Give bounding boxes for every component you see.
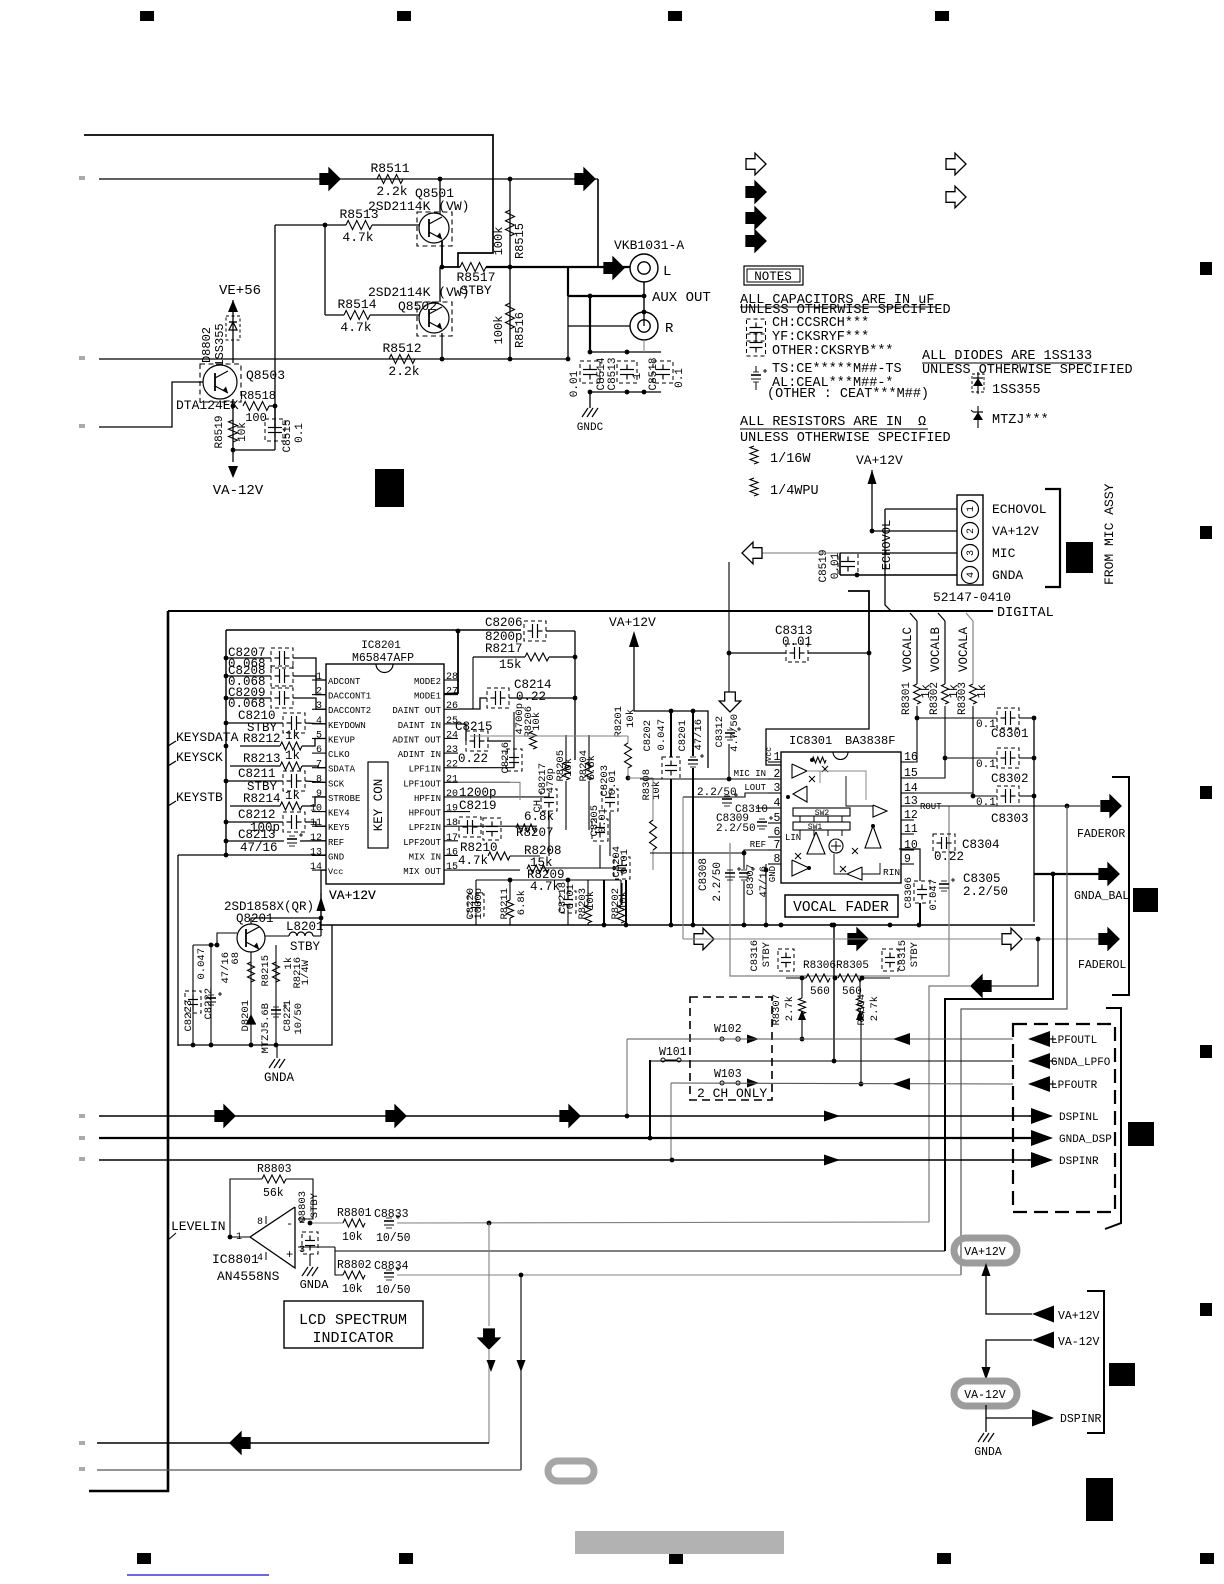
svg-text:KEYDOWN: KEYDOWN (328, 721, 366, 731)
capacitor C8212 (291, 815, 293, 829)
svg-text:DSPINR: DSPINR (1060, 1413, 1102, 1426)
svg-text:1: 1 (236, 1232, 242, 1243)
svg-text:12: 12 (310, 833, 322, 844)
arrowhead up r8307 (798, 1010, 806, 1020)
wire pin8 col (765, 864, 767, 925)
pin 6 stub (312, 752, 326, 754)
svg-text:STBY: STBY (290, 940, 321, 954)
pin 15 stub (444, 869, 458, 871)
svg-text:STBY: STBY (460, 283, 491, 298)
wire pin18 net (458, 825, 537, 827)
resistor R8307 (799, 998, 806, 1014)
wire r8201 col (627, 736, 629, 743)
svg-text:C8206: C8206 (485, 616, 523, 630)
wire r8204 col (588, 735, 590, 771)
internal dot (810, 758, 814, 762)
junction (508, 177, 513, 182)
diode 1SS355 symbol (977, 372, 979, 394)
svg-text:4: 4 (316, 716, 322, 727)
capacitor C8202 (665, 765, 677, 767)
wire c8834 out (397, 1274, 961, 1276)
svg-text:KEY4: KEY4 (328, 809, 350, 819)
wire R8214 right (302, 797, 326, 806)
wire vocala net (901, 706, 973, 793)
wire to left arrow (762, 552, 840, 554)
svg-text:R8302: R8302 (929, 682, 941, 715)
svg-text:0.22: 0.22 (516, 690, 546, 704)
capacitor C8833 sym (384, 1220, 394, 1222)
svg-text:MTZJ5.6B: MTZJ5.6B (260, 1003, 272, 1053)
pin 9 stub (312, 796, 326, 798)
wire DSPINR (99, 1159, 1031, 1161)
svg-text:REF: REF (328, 838, 344, 848)
wire levelin (229, 1236, 250, 1238)
wire r8304 down (859, 978, 861, 998)
wire pin16 mixin (458, 854, 488, 857)
junction (231, 448, 236, 453)
wire r8307 col (801, 1014, 803, 1039)
svg-text:10: 10 (310, 804, 322, 815)
pin 2 stub (312, 694, 326, 696)
junction (642, 390, 647, 395)
electrolytic symbol (751, 374, 761, 376)
wire pin3 stub (298, 1246, 335, 1248)
U8301 pin 16 stub (901, 761, 914, 763)
footer link underline (127, 1574, 269, 1576)
internal resistor (812, 757, 826, 763)
svg-text:R8513: R8513 (339, 207, 378, 222)
svg-text:ADINT IN: ADINT IN (398, 750, 441, 760)
hollow arrow left (742, 542, 762, 564)
exit arrow DSPINR (1031, 1152, 1053, 1168)
svg-text:26: 26 (446, 701, 458, 712)
svg-text:LCD SPECTRUM: LCD SPECTRUM (299, 1312, 407, 1329)
registration mark right (1200, 526, 1212, 539)
junction (209, 1043, 214, 1048)
svg-text:C8301: C8301 (991, 727, 1029, 741)
wire echovol vert (885, 509, 891, 611)
wire C8213 left (226, 840, 284, 842)
page edge tick (79, 1157, 85, 1161)
wire bus 905 (476, 919, 604, 921)
wire va-12v (986, 1340, 1032, 1372)
wire vert 575 (574, 631, 576, 760)
svg-text:FADEROR: FADEROR (1077, 828, 1125, 841)
internal wire (807, 771, 820, 783)
junction (867, 651, 872, 656)
pin 19 stub (444, 811, 458, 813)
wire c8833 out (397, 1222, 929, 1223)
resistor R8210 (488, 852, 510, 860)
va+12v left tri (1032, 1306, 1054, 1323)
wire c8222 col (210, 945, 212, 1045)
ground GNDA opamp (302, 1267, 308, 1276)
svg-text:Vcc: Vcc (328, 867, 343, 877)
registration mark right (1200, 1045, 1212, 1058)
wire input R (99, 358, 568, 360)
U8301 pin 15 stub (901, 777, 914, 779)
svg-text:VOCALB: VOCALB (929, 627, 943, 673)
wire jack R bottom (643, 340, 645, 352)
op-amp tri6 (792, 860, 809, 876)
svg-text:VA+12V: VA+12V (1058, 1310, 1100, 1323)
svg-text:R8215: R8215 (260, 955, 272, 987)
wire GND pin13 (178, 854, 326, 856)
svg-text:14: 14 (310, 862, 322, 873)
op-amp tri1 (792, 764, 807, 778)
wire gnda_lpfo (650, 1060, 1013, 1062)
svg-text:ADINT OUT: ADINT OUT (392, 735, 441, 745)
wire c8306 col2 (919, 903, 921, 925)
hollow down arrow (719, 692, 741, 712)
svg-text:NOTES: NOTES (754, 270, 792, 284)
sw ticks2 (799, 830, 801, 836)
U8301 pin 2 stub (768, 778, 781, 780)
underline (740, 306, 936, 308)
junction (870, 529, 875, 534)
resistor 1/16W symbol (750, 446, 758, 464)
svg-text:W101: W101 (659, 1046, 687, 1059)
svg-text:0.22: 0.22 (934, 850, 964, 864)
ground GNDA exit (978, 1433, 984, 1442)
svg-text:1/4W: 1/4W (300, 959, 312, 985)
pin 11 stub (312, 825, 326, 827)
wire rout (914, 805, 1100, 807)
flow arrowhead dspinr (824, 1155, 840, 1166)
resistor R8201 (625, 743, 632, 768)
wire to GNDC (589, 392, 591, 408)
gray pill (548, 1461, 594, 1481)
wire DSPINL (99, 1115, 1031, 1117)
pin 16 stub (444, 854, 458, 856)
svg-text:LPFOUTR: LPFOUTR (1051, 1080, 1098, 1092)
wire c8218 col2 (567, 910, 569, 925)
junction (456, 629, 461, 634)
wire VA+12V rail (634, 647, 708, 768)
svg-text:21: 21 (446, 774, 458, 785)
capacitor C8223 (188, 999, 198, 1001)
capacitor C8315 (885, 957, 895, 959)
junction (588, 350, 593, 355)
pin 20 stub (444, 796, 458, 798)
wire va drop (320, 893, 322, 936)
svg-text:HPFOUT: HPFOUT (409, 809, 442, 819)
registration mark top (397, 11, 411, 21)
svg-text:GNDA_DSP: GNDA_DSP (1059, 1134, 1112, 1146)
svg-text:MIX IN: MIX IN (409, 852, 441, 862)
wire drop 672 (670, 1083, 672, 1161)
svg-text:1k: 1k (285, 749, 300, 763)
off-page arrow (575, 168, 595, 190)
svg-text:6: 6 (774, 826, 781, 839)
svg-text:KEYSCK: KEYSCK (176, 750, 223, 765)
svg-text:17: 17 (446, 833, 458, 844)
svg-text:3: 3 (316, 701, 322, 712)
power arrow VA+12V (868, 470, 877, 484)
resistor R8516 (506, 303, 515, 329)
svg-text:MODE2: MODE2 (414, 677, 441, 687)
internal wire (862, 863, 880, 874)
svg-text:KEYSTB: KEYSTB (176, 790, 223, 805)
wire Q8501 collector (439, 179, 441, 214)
wire C8207 left (226, 657, 271, 659)
zone marker square (va-12v) (1109, 1363, 1135, 1386)
page edge tick (79, 176, 85, 180)
jumper W103 (720, 1081, 724, 1085)
page edge tick (79, 1441, 85, 1445)
x mark (852, 848, 858, 854)
gray footer bar (575, 1531, 784, 1554)
capacitor C8303 (1005, 789, 1007, 803)
svg-text:STBY: STBY (309, 1192, 321, 1218)
svg-text:DAINT IN: DAINT IN (398, 721, 441, 731)
junction (1032, 756, 1037, 761)
pin4 bar (265, 1252, 267, 1260)
junction (519, 1273, 524, 1278)
svg-text:HPFIN: HPFIN (414, 794, 441, 804)
wire Q8201 base (193, 933, 237, 945)
svg-text:AN4558NS: AN4558NS (217, 1269, 280, 1284)
svg-text:22: 22 (446, 760, 458, 771)
svg-text:Ω: Ω (918, 415, 926, 430)
wire drop 650 (649, 1060, 651, 1138)
pin8 bar (265, 1216, 267, 1224)
capacitor C8513 (620, 369, 634, 371)
wire C8215 right (487, 740, 511, 742)
junction (602, 923, 607, 928)
svg-text:27: 27 (446, 687, 458, 698)
svg-text:C8202: C8202 (642, 720, 654, 752)
wire trunk 604 (603, 880, 605, 925)
svg-text:OTHER:CKSRYB***: OTHER:CKSRYB*** (772, 344, 894, 359)
capacitor C8218 (563, 899, 573, 901)
wire R8213 left (230, 765, 280, 767)
capacitor C8305 sym (939, 883, 949, 885)
wire bus 868 (540, 867, 626, 869)
bracket lpf group (1105, 1008, 1121, 1229)
svg-text:LPF2IN: LPF2IN (409, 823, 441, 833)
svg-text:1k: 1k (285, 789, 300, 803)
wire pin26 net (458, 698, 487, 709)
diode D8201 (246, 1023, 256, 1025)
svg-text:GNDA: GNDA (974, 1446, 1002, 1459)
bracket fader group (1112, 777, 1129, 995)
svg-text:4: 4 (966, 572, 977, 578)
svg-text:ADCONT: ADCONT (328, 677, 361, 687)
capacitor C8220 (471, 902, 481, 904)
svg-text:KEYUP: KEYUP (328, 735, 355, 745)
off-page arrow (746, 207, 766, 229)
jack R (630, 312, 658, 340)
resistor R8308 (650, 820, 657, 850)
junction (319, 916, 324, 921)
fat down arrow (478, 1329, 500, 1349)
wire pin18 net (458, 827, 463, 841)
wire bus 880 (476, 879, 621, 881)
svg-text:FADEROL: FADEROL (1078, 959, 1126, 972)
pin 21 stub (444, 781, 458, 783)
flow arrowhead lpfoutl (893, 1033, 910, 1045)
x mark (809, 776, 815, 782)
junction (764, 868, 769, 873)
svg-text:DTA124EK: DTA124EK (176, 398, 239, 413)
svg-text:9: 9 (316, 789, 322, 800)
svg-text:15: 15 (446, 862, 458, 873)
svg-text:UNLESS OTHERWISE SPECIFIED: UNLESS OTHERWISE SPECIFIED (922, 363, 1133, 378)
pin 17 stub (444, 840, 458, 842)
capacitor C8222 (206, 997, 216, 999)
op-amp tri2 (793, 786, 807, 802)
junction (971, 794, 976, 799)
svg-text:KEY5: KEY5 (328, 823, 350, 833)
U8301 pin 8 stub (768, 863, 781, 865)
wire C8211 right (305, 781, 326, 782)
pin 23 stub (444, 752, 458, 754)
wire c8220 col (475, 880, 477, 897)
wire pin2 row (298, 1219, 343, 1223)
wire c8519 col (839, 553, 841, 575)
arrowhead up r8304 (856, 1010, 864, 1020)
KEY CON box (368, 762, 388, 848)
wire R8302 entry (938, 613, 945, 621)
svg-text:47/16: 47/16 (240, 841, 278, 855)
junction (487, 1221, 492, 1226)
svg-text:C8515: C8515 (282, 419, 294, 452)
U8301 pin 12 stub (901, 819, 914, 821)
U8301 pin 11 stub (901, 833, 914, 835)
pin 4 stub (312, 723, 326, 725)
wire faderol feedback2 (929, 986, 971, 1222)
resistor 1/4WPU symbol (750, 478, 758, 496)
svg-text:C8223: C8223 (183, 1000, 195, 1032)
svg-text:0.1: 0.1 (674, 368, 686, 388)
wire lout drop (682, 797, 684, 939)
junction (224, 721, 229, 726)
svg-text:IC8201: IC8201 (361, 640, 401, 652)
junction (669, 923, 674, 928)
wire pin3 long (335, 1250, 945, 1252)
svg-text:FROM MIC ASSY: FROM MIC ASSY (1102, 483, 1117, 585)
page edge tick (79, 1136, 85, 1140)
wire c8803 gnd (309, 1254, 311, 1266)
exit arrow FADEROR (1101, 795, 1121, 817)
svg-text:2.2k: 2.2k (376, 184, 407, 199)
junction (691, 709, 696, 714)
resistor R8802 (343, 1271, 365, 1279)
wire C8210 right (305, 722, 326, 725)
wire r8201 col2 (627, 768, 629, 778)
svg-text:C8212: C8212 (238, 808, 276, 822)
flow arrowhead dspinl (824, 1111, 840, 1122)
svg-text:SW2: SW2 (815, 809, 830, 818)
capacitor C8306 (917, 889, 927, 891)
zener MTZJ symbol (977, 406, 979, 428)
op-amp IC8801 triangle (250, 1207, 295, 1268)
svg-text:C8315: C8315 (897, 940, 909, 972)
svg-text:7: 7 (774, 839, 781, 852)
junction (224, 853, 229, 858)
resistor R8512 (389, 355, 415, 364)
pin 5 stub (312, 737, 326, 739)
junction (224, 674, 229, 679)
filled arrow fader (848, 928, 868, 950)
wire r8204 col2 (588, 781, 590, 830)
svg-text:12: 12 (904, 809, 918, 822)
flow arrow (560, 1105, 580, 1127)
svg-text:10: 10 (904, 839, 918, 852)
exit arrow FADEROL (1099, 928, 1119, 950)
svg-text:DAINT OUT: DAINT OUT (392, 706, 441, 716)
main box top edge (168, 610, 993, 612)
connector pin 3 (962, 545, 979, 562)
wire c8202 col (670, 711, 672, 757)
power arrow VA+12V (317, 897, 326, 911)
capacitor C8209 (279, 691, 281, 705)
summing circle (829, 839, 843, 853)
svg-text:5: 5 (774, 812, 781, 825)
junction (727, 651, 732, 656)
capacitor C8519 (841, 561, 855, 563)
junction (274, 1043, 279, 1048)
junction (670, 1158, 675, 1163)
svg-text:C8306: C8306 (903, 877, 915, 909)
svg-text:R8801: R8801 (337, 1207, 372, 1220)
svg-text:2: 2 (966, 528, 977, 534)
capacitor C8217 (544, 797, 554, 799)
svg-text:1: 1 (316, 672, 322, 683)
svg-text:YF:CKSRYF***: YF:CKSRYF*** (772, 330, 869, 345)
wire vert C8515 feed (274, 225, 276, 430)
svg-text:VA+12V: VA+12V (609, 615, 656, 630)
connector pin 4 (962, 567, 979, 584)
wire c8223 col (192, 945, 194, 1045)
wire R8518 right (269, 405, 275, 407)
capacitor symbol (750, 327, 763, 329)
wire top bus A (84, 135, 493, 267)
svg-text:15k: 15k (499, 658, 522, 672)
wire c8220 col2 (475, 913, 477, 925)
exit arrow DSPINL (1031, 1108, 1053, 1124)
wire R8213 right (302, 766, 326, 768)
svg-text:C8215: C8215 (455, 720, 493, 734)
wire mix bus (510, 855, 540, 857)
wire KEYSCK entry (168, 761, 176, 766)
capacitor C8213 (287, 838, 297, 840)
svg-text:R8306: R8306 (803, 960, 836, 972)
arrowhead down 1 (487, 1360, 496, 1372)
internal dot (786, 795, 790, 799)
wire Q8502 emitter (441, 333, 443, 359)
svg-text:1SS355: 1SS355 (213, 323, 227, 366)
flow arrow (386, 1105, 406, 1127)
svg-text:D8201: D8201 (240, 1000, 252, 1032)
U8301 pin 9 stub (901, 863, 914, 865)
svg-text:10k: 10k (237, 422, 249, 442)
wire to L jack (597, 179, 599, 268)
resistor R8205 (563, 762, 570, 780)
svg-text:INDICATOR: INDICATOR (312, 1330, 393, 1347)
wire jack R col (567, 296, 569, 359)
wire c8201 col2 (692, 768, 694, 925)
svg-text:MIC: MIC (992, 546, 1016, 561)
wire R8513 to base (372, 224, 419, 226)
wire R8212 right (302, 738, 326, 746)
wire cap rail bottom (590, 391, 661, 393)
svg-text:10k: 10k (531, 712, 543, 731)
svg-text:MIC IN: MIC IN (734, 769, 766, 779)
svg-text:R8217: R8217 (485, 642, 523, 656)
U8301 pin 4 stub (768, 807, 781, 809)
